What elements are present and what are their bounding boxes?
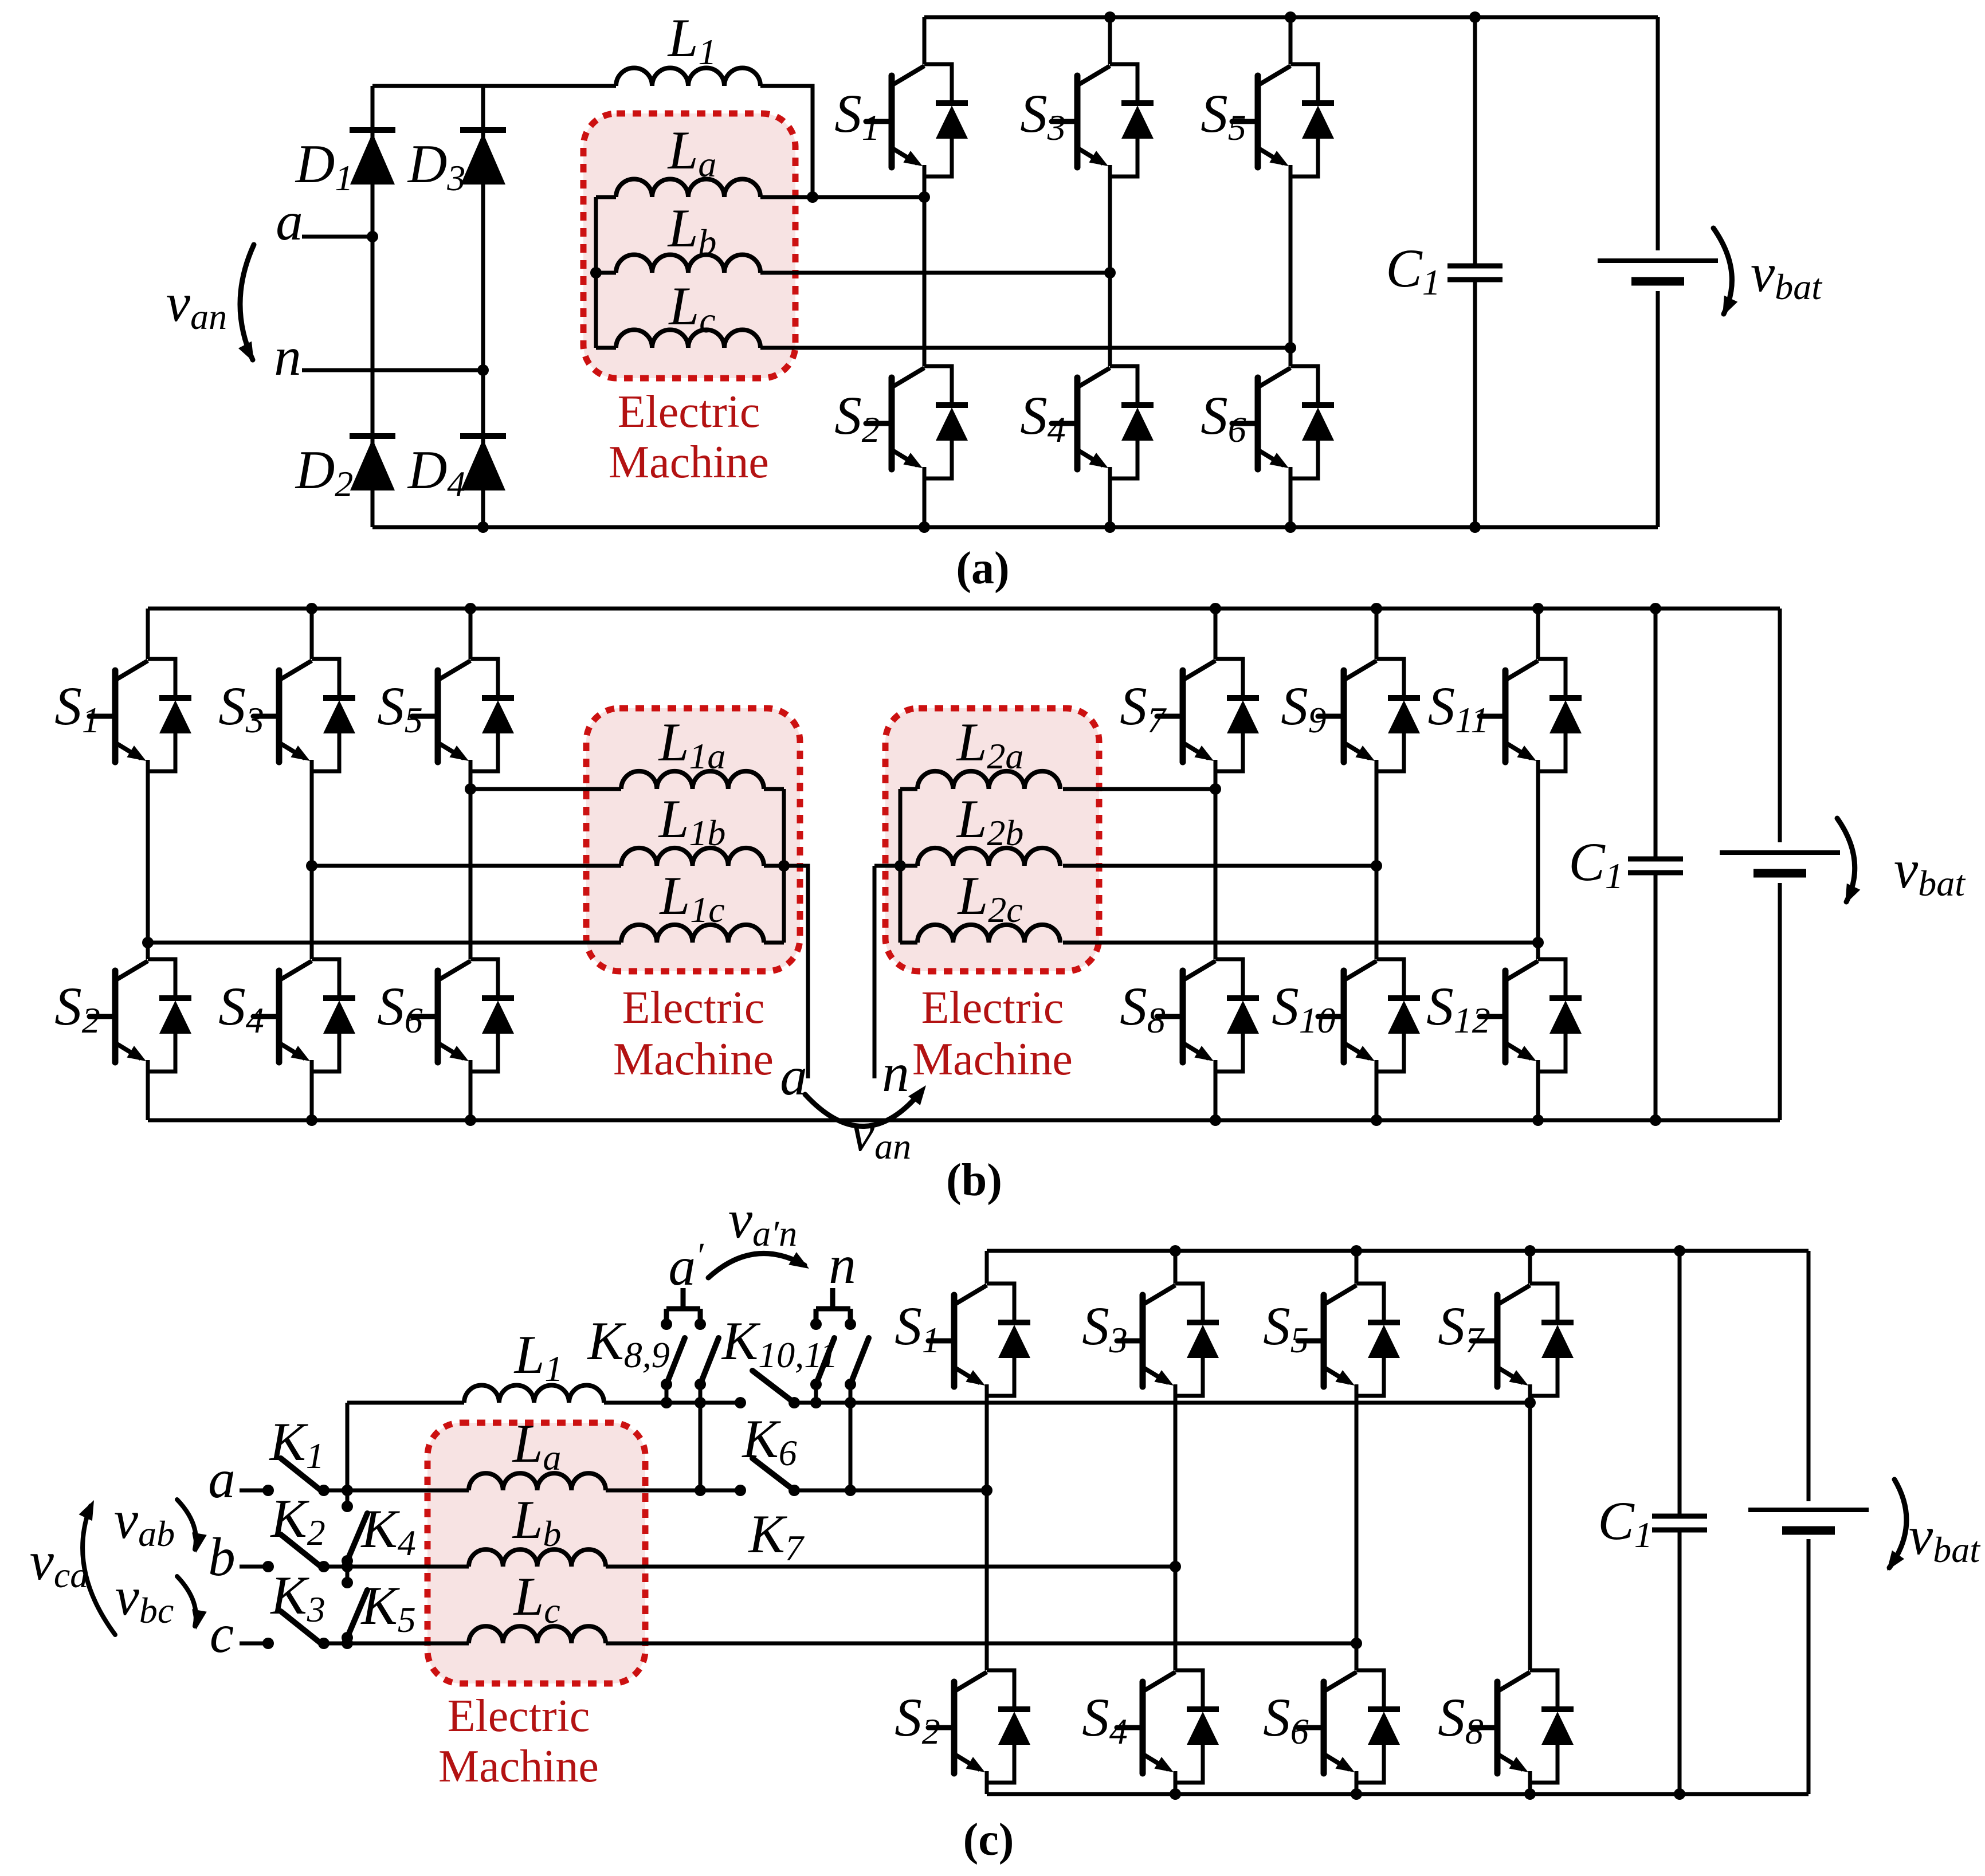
wire coil left stubs (a) xyxy=(596,197,616,348)
inductor Lb (c) xyxy=(469,1549,606,1567)
wire K10 stub to row a-prime xyxy=(814,1384,818,1403)
transistor S4 (b) (IGBT with antiparallel diode) xyxy=(253,959,355,1072)
svg-text:vbat: vbat xyxy=(1909,1505,1981,1570)
node K8-K11 lower contacts xyxy=(661,1379,856,1390)
wire phase a to leg S1/S2 xyxy=(760,195,924,199)
wire battery leads (a) xyxy=(1656,17,1660,527)
wire machine (a) neutral bus xyxy=(594,197,598,348)
transistor S3 (b) (IGBT with antiparallel diode) xyxy=(253,659,355,771)
svg-text:S7: S7 xyxy=(1120,676,1167,740)
wire machine1 star bus (b) xyxy=(782,789,786,943)
node L1 to phase-a junction xyxy=(807,191,818,203)
wire top rail to S11/S12 upper collector (b) xyxy=(1536,609,1540,659)
svg-text:van: van xyxy=(166,272,227,337)
wire S1/S2 mid segment (c) xyxy=(985,1396,989,1670)
svg-text:S4: S4 xyxy=(218,976,264,1041)
wire K9 stub and tie to row a xyxy=(699,1384,703,1490)
inductor La xyxy=(616,179,760,198)
svg-text:D1: D1 xyxy=(295,134,354,198)
inductor L2a xyxy=(917,771,1060,789)
inductor L1c xyxy=(621,925,764,943)
node b input contact (c) xyxy=(262,1561,274,1572)
wire top rail to S3/S4 upper collector (b) xyxy=(310,609,314,659)
wire coil left stubs m2 (b) xyxy=(900,789,917,943)
wire row c into machine xyxy=(347,1642,469,1646)
svg-text:Electric: Electric xyxy=(921,983,1064,1033)
svg-text:S3: S3 xyxy=(218,676,264,740)
svg-text:Machine: Machine xyxy=(912,1034,1073,1085)
electric machine 2 (b) red dashed box xyxy=(885,708,1099,971)
v_an (b) arrow xyxy=(805,1085,926,1127)
diode D3 xyxy=(460,130,506,185)
svg-text:S1: S1 xyxy=(54,676,100,740)
svg-text:K8,9: K8,9 xyxy=(586,1310,669,1375)
wire S5/S6 lower emitter to negative rail xyxy=(1289,478,1293,527)
node bottom rail junctions (c) xyxy=(1170,1788,1685,1800)
diode D2 xyxy=(350,436,395,490)
wire diode bridge left leg (D1/D2) xyxy=(371,86,375,527)
wire S1/S2 to negative rail (c) xyxy=(985,1783,989,1794)
svg-text:Electric: Electric xyxy=(622,983,765,1033)
wire L2a to leg4 (b) xyxy=(1063,787,1215,791)
svg-text:va′n: va′n xyxy=(728,1189,797,1254)
node row b junction cluster xyxy=(342,1555,353,1588)
wire diode bridge right leg (D3/D4) xyxy=(481,86,485,527)
svg-text:S8: S8 xyxy=(1120,976,1166,1041)
transistor S1 (c) (IGBT with antiparallel diode) xyxy=(928,1284,1030,1396)
electric machine 1 (b) red dashed box xyxy=(586,708,800,971)
wire row b Lb out to leg2 xyxy=(606,1565,1175,1569)
node K2 right contact (c) xyxy=(318,1561,329,1572)
wire S5/S6 to negative rail (c) xyxy=(1355,1783,1359,1794)
svg-text:K1: K1 xyxy=(268,1411,324,1476)
wire K4 bottom / row b / K5 top xyxy=(346,1561,350,1583)
wire c input stub (c) xyxy=(240,1642,268,1646)
svg-text:n: n xyxy=(829,1234,856,1295)
svg-text:S10: S10 xyxy=(1272,976,1336,1041)
wire leg3 to L1a (b) xyxy=(470,787,621,791)
node phase junctions (b) xyxy=(142,783,1544,948)
wire C1 leads (b) xyxy=(1654,609,1658,1120)
transistor S5 (c) (IGBT with antiparallel diode) xyxy=(1298,1284,1400,1396)
node top rail junctions (a) xyxy=(1104,11,1481,23)
wire S5/S6 lower emitter to rail (b) xyxy=(469,1072,473,1120)
wire a input stub (c) xyxy=(240,1489,268,1493)
transistor S2 (b) (IGBT with antiparallel diode) xyxy=(89,959,191,1072)
node phase junctions on legs (a) xyxy=(919,191,1296,354)
inductor L1a xyxy=(621,771,764,789)
wire negative DC rail (b) xyxy=(148,1118,1780,1123)
wire S3/S4 phase segment (b) xyxy=(310,771,314,959)
transistor S4 (c) (IGBT with antiparallel diode) xyxy=(1117,1670,1219,1783)
wire coil right stubs m1 (b) xyxy=(764,789,784,943)
node top rail junctions (b) xyxy=(306,603,1661,614)
battery v_bat source (c) xyxy=(1748,1510,1869,1530)
node Lb to neutral bus xyxy=(590,267,602,278)
wire S7/S8 phase segment (b) xyxy=(1214,771,1218,959)
wire S5/S6 phase segment xyxy=(1289,176,1293,366)
wire top rail to S5/S6 upper collector (b) xyxy=(469,609,473,659)
wire top rail to S5/S6 (c) xyxy=(1355,1251,1359,1284)
switch K6 blade xyxy=(752,1371,794,1403)
svg-text:S1: S1 xyxy=(895,1296,940,1360)
diode D4 xyxy=(460,436,506,490)
svg-text:a: a xyxy=(276,191,303,252)
transistor S2 (c) (IGBT with antiparallel diode) xyxy=(928,1670,1030,1783)
wire S1/S2 phase segment (b) xyxy=(146,771,150,959)
transistor S1 (IGBT with antiparallel diode) xyxy=(866,64,968,176)
svg-text:Machine: Machine xyxy=(613,1034,774,1085)
svg-text:vbc: vbc xyxy=(115,1566,174,1631)
wire S11/S12 phase segment (b) xyxy=(1536,771,1540,959)
svg-text:S2: S2 xyxy=(834,385,880,450)
wire row a La out to K7 xyxy=(606,1489,740,1493)
svg-text:Machine: Machine xyxy=(438,1741,599,1792)
svg-text:S1: S1 xyxy=(834,83,880,148)
wire L2c to leg6 (b) xyxy=(1063,941,1538,945)
svg-text:S2: S2 xyxy=(54,976,100,1041)
wire row a-prime from drop to L1 xyxy=(347,1401,464,1405)
capacitor C1 (b) xyxy=(1628,859,1683,873)
node leg phase junctions (c) xyxy=(981,1397,1536,1649)
svg-text:n: n xyxy=(882,1042,909,1103)
transistor S3 (c) (IGBT with antiparallel diode) xyxy=(1117,1284,1219,1396)
wire top rail to S7/S8 upper collector (b) xyxy=(1214,609,1218,659)
wire K2 to row b junction xyxy=(324,1565,347,1569)
svg-text:b: b xyxy=(208,1526,236,1587)
wire positive DC rail (b) xyxy=(148,607,1780,611)
svg-text:S5: S5 xyxy=(1201,83,1246,148)
wire top rail to S7/S8 (c) xyxy=(1528,1251,1532,1284)
wire S9/S10 phase segment (b) xyxy=(1375,771,1379,959)
svg-text:S7: S7 xyxy=(1438,1296,1485,1360)
transistor S2 (IGBT with antiparallel diode) xyxy=(866,366,968,478)
v_bat (c) arrow xyxy=(1887,1479,1906,1571)
svg-text:S3: S3 xyxy=(1082,1296,1128,1360)
switch K1 blade xyxy=(281,1458,324,1493)
wire phase a input stub xyxy=(302,235,372,239)
node n on bridge right leg xyxy=(477,364,489,376)
wire row a K7 to leg1 xyxy=(794,1489,987,1493)
wire top rail to S3/S4 upper collector xyxy=(1108,17,1112,64)
svg-text:S8: S8 xyxy=(1438,1687,1484,1752)
wire phase c to leg S5/S6 xyxy=(760,346,1290,350)
svg-text:K3: K3 xyxy=(269,1565,325,1630)
wire positive DC rail (c) xyxy=(987,1249,1809,1253)
switch K10 blade xyxy=(816,1338,834,1384)
node K4 top contact xyxy=(342,1501,353,1512)
wire negative DC rail (c) xyxy=(987,1792,1809,1796)
capacitor C1 (a) xyxy=(1447,266,1503,280)
svg-text:L1: L1 xyxy=(513,1324,563,1389)
transistor S6 (c) (IGBT with antiparallel diode) xyxy=(1298,1670,1400,1783)
svg-text:S6: S6 xyxy=(1201,385,1246,450)
diode D1 xyxy=(350,130,395,185)
wire top rail to S3/S4 (c) xyxy=(1174,1251,1178,1284)
switch K11 blade xyxy=(850,1338,869,1384)
wire leg1 to L1c (b) xyxy=(148,941,621,945)
wire L1 left drop to row a xyxy=(346,1403,350,1506)
wire L2b to leg5 (b) xyxy=(1063,864,1376,868)
wire neutral n input stub xyxy=(302,368,483,372)
v_bc arrow xyxy=(177,1576,207,1630)
inductor L1b xyxy=(621,848,764,866)
switch K3 blade xyxy=(281,1611,324,1646)
wire row c Lc out to leg3 xyxy=(606,1642,1356,1646)
svg-text:S5: S5 xyxy=(1263,1296,1309,1360)
wire top rail to S1/S2 (c) xyxy=(985,1251,989,1284)
transistor S6 (b) (IGBT with antiparallel diode) xyxy=(412,959,514,1072)
v_bat (b) arrow xyxy=(1837,818,1860,904)
wire S1/S2 lower emitter to rail (b) xyxy=(146,1072,150,1120)
wire K5 bottom to row c xyxy=(346,1638,350,1643)
transistor S11 (b) (IGBT with antiparallel diode) xyxy=(1480,659,1582,771)
wire phase b to leg S3/S4 xyxy=(760,271,1110,275)
wire leg2 to L1b (b) xyxy=(312,864,621,868)
svg-text:S11: S11 xyxy=(1428,676,1489,740)
wire row a-prime K6 to 4th leg xyxy=(794,1401,1530,1405)
node a' upper contacts xyxy=(661,1318,706,1330)
wire K3 to row c junction xyxy=(324,1642,347,1646)
wire S1/S2 lower emitter to negative rail xyxy=(923,478,927,527)
inductor L1 (c) xyxy=(464,1385,604,1403)
v_bat (a) arrow xyxy=(1713,228,1737,316)
wire battery leads (c) xyxy=(1807,1251,1811,1794)
wire S3/S4 phase segment xyxy=(1108,176,1112,366)
wire S7/S8 lower emitter to rail (b) xyxy=(1214,1072,1218,1120)
wire machine1 terminal a (b) xyxy=(784,866,808,1078)
svg-text:D4: D4 xyxy=(407,439,466,504)
wire top rail to S1/S2 upper collector xyxy=(923,17,927,64)
svg-text:K10,11: K10,11 xyxy=(721,1310,838,1375)
inductor Lb xyxy=(616,255,760,273)
electric machine (a) red dashed box xyxy=(583,113,795,378)
terminal a' bracket xyxy=(666,1288,700,1324)
transistor S4 (IGBT with antiparallel diode) xyxy=(1052,366,1154,478)
node n upper contacts xyxy=(810,1318,856,1330)
wire row b into machine xyxy=(347,1565,469,1569)
svg-text:C1: C1 xyxy=(1386,238,1440,303)
transistor S7 (b) (IGBT with antiparallel diode) xyxy=(1157,659,1259,771)
svg-text:S3: S3 xyxy=(1020,83,1066,148)
svg-text:S6: S6 xyxy=(1263,1687,1309,1752)
battery v_bat source (a) xyxy=(1598,261,1718,281)
v_a'n arrow xyxy=(708,1252,809,1278)
transistor S8 (b) (IGBT with antiparallel diode) xyxy=(1157,959,1259,1072)
svg-text:K6: K6 xyxy=(741,1408,797,1473)
wire battery leads (b) xyxy=(1778,609,1782,1120)
transistor S8 (c) (IGBT with antiparallel diode) xyxy=(1472,1670,1574,1783)
svg-text:vab: vab xyxy=(114,1489,175,1554)
node machine1 bus junction xyxy=(778,860,790,872)
wire machine2 terminal n (b) xyxy=(874,866,900,1078)
wire top rail to S5/S6 upper collector xyxy=(1289,17,1293,64)
transistor S3 (IGBT with antiparallel diode) xyxy=(1052,64,1154,176)
switch K4 blade xyxy=(348,1513,367,1558)
switch K9 blade xyxy=(700,1338,719,1384)
terminal n bracket xyxy=(816,1288,850,1324)
switch K8 blade xyxy=(666,1338,685,1384)
node bottom rail junctions (b) xyxy=(306,1114,1661,1126)
svg-text:S2: S2 xyxy=(895,1687,940,1752)
svg-text:a′: a′ xyxy=(668,1236,704,1297)
wire S7/S8 to negative rail (c) xyxy=(1528,1783,1532,1794)
wire S5/S6 mid segment (c) xyxy=(1355,1396,1359,1670)
transistor S9 (b) (IGBT with antiparallel diode) xyxy=(1318,659,1420,771)
svg-text:C1: C1 xyxy=(1568,831,1623,896)
node bottom rail junctions (a) xyxy=(477,521,1481,533)
wire positive DC rail (a) xyxy=(924,15,1658,19)
wire bridge top to L1 xyxy=(372,84,616,88)
svg-text:S5: S5 xyxy=(377,676,423,740)
node row a junction at x606 xyxy=(342,1485,353,1496)
svg-text:S9: S9 xyxy=(1281,676,1327,740)
node row c junction cluster xyxy=(342,1632,353,1649)
node machine2 bus junction xyxy=(895,860,906,872)
wire top rail to S9/S10 upper collector (b) xyxy=(1375,609,1379,659)
wire machine2 star bus (b) xyxy=(899,789,903,943)
svg-text:Electric: Electric xyxy=(448,1691,590,1741)
wire S3/S4 mid segment (c) xyxy=(1174,1396,1178,1670)
svg-text:n: n xyxy=(274,326,301,387)
wire C1 leads (c) xyxy=(1678,1251,1682,1794)
wire top rail to S1/S2 upper collector (b) xyxy=(146,609,150,659)
wire S3/S4 lower emitter to negative rail xyxy=(1108,478,1112,527)
wire S7/S8 mid segment (c) xyxy=(1528,1396,1532,1670)
wire S5/S6 phase segment (b) xyxy=(469,771,473,959)
svg-text:vca: vca xyxy=(30,1530,89,1595)
svg-text:Electric: Electric xyxy=(618,387,760,437)
svg-text:(c): (c) xyxy=(963,1815,1014,1865)
svg-text:(b): (b) xyxy=(946,1155,1002,1206)
svg-text:S12: S12 xyxy=(1426,976,1490,1041)
transistor S6 (IGBT with antiparallel diode) xyxy=(1232,366,1334,478)
wire S1/S2 phase segment xyxy=(923,176,927,366)
wire L1 output down to phase a node xyxy=(760,86,813,197)
inductor L1 (a) xyxy=(616,68,760,86)
node K6 contacts xyxy=(735,1397,800,1408)
node K7 contacts xyxy=(735,1485,800,1496)
transistor S1 (b) (IGBT with antiparallel diode) xyxy=(89,659,191,771)
wire negative DC rail (a) xyxy=(372,525,1658,529)
svg-text:S4: S4 xyxy=(1082,1687,1128,1752)
svg-text:vbat: vbat xyxy=(1751,242,1823,307)
transistor S5 (b) (IGBT with antiparallel diode) xyxy=(412,659,514,771)
inductor L2c xyxy=(917,925,1060,943)
node K1 right contact (c) xyxy=(318,1485,329,1496)
node top rail junctions (c) xyxy=(1170,1245,1685,1257)
wire K11 stub and tie to row a xyxy=(849,1384,853,1490)
battery v_bat source (b) xyxy=(1720,853,1840,873)
svg-text:(a): (a) xyxy=(956,543,1009,594)
wire K1 to row a junction xyxy=(324,1489,347,1493)
v_an (a) arrow xyxy=(238,245,254,362)
v_ab arrow xyxy=(177,1500,207,1553)
svg-text:L1: L1 xyxy=(667,7,717,72)
node a on bridge left leg xyxy=(367,231,378,242)
node c input contact (c) xyxy=(262,1638,274,1649)
switch K2 blade xyxy=(281,1534,324,1569)
svg-text:Machine: Machine xyxy=(609,437,769,488)
svg-text:c: c xyxy=(210,1603,234,1664)
svg-text:La: La xyxy=(512,1413,562,1478)
svg-text:D3: D3 xyxy=(407,134,466,198)
capacitor C1 (c) xyxy=(1652,1516,1707,1530)
inductor L2b xyxy=(917,848,1060,866)
svg-text:a: a xyxy=(208,1449,236,1509)
switch K5 blade xyxy=(348,1590,367,1635)
electric machine (c) red dashed box xyxy=(427,1423,645,1683)
v_ca arrow xyxy=(79,1500,116,1635)
svg-text:S4: S4 xyxy=(1020,385,1066,450)
svg-text:D2: D2 xyxy=(295,439,354,504)
inductor La (c) xyxy=(469,1473,606,1490)
wire b input stub (c) xyxy=(240,1565,268,1569)
wire S11/S12 lower emitter to rail (b) xyxy=(1536,1072,1540,1120)
node K3 right contact (c) xyxy=(318,1638,329,1649)
svg-text:K7: K7 xyxy=(747,1504,805,1568)
wire K8 stub to row a-prime xyxy=(665,1384,669,1403)
svg-text:a: a xyxy=(780,1046,807,1106)
transistor S7 (c) (IGBT with antiparallel diode) xyxy=(1472,1284,1574,1396)
transistor S5 (IGBT with antiparallel diode) xyxy=(1232,64,1334,176)
wire C1 leads (a) xyxy=(1473,17,1477,527)
wire S9/S10 lower emitter to rail (b) xyxy=(1375,1072,1379,1120)
node stub junctions on rows xyxy=(661,1397,856,1496)
svg-text:K5: K5 xyxy=(360,1575,415,1640)
transistor S10 (b) (IGBT with antiparallel diode) xyxy=(1318,959,1420,1072)
svg-text:S6: S6 xyxy=(377,976,423,1041)
wire row a-prime L1 out to K6 xyxy=(604,1401,740,1405)
wire S3/S4 to negative rail (c) xyxy=(1174,1783,1178,1794)
transistor S12 (b) (IGBT with antiparallel diode) xyxy=(1480,959,1582,1072)
svg-text:K4: K4 xyxy=(360,1498,415,1563)
wire S3/S4 lower emitter to rail (b) xyxy=(310,1072,314,1120)
node a input contact (c) xyxy=(262,1485,274,1496)
inductor Lc (c) xyxy=(469,1626,606,1643)
svg-text:K2: K2 xyxy=(269,1488,325,1553)
wire row a into machine xyxy=(347,1489,469,1493)
svg-text:C1: C1 xyxy=(1598,1490,1652,1555)
switch K7 blade xyxy=(752,1458,794,1490)
inductor Lc xyxy=(616,330,760,348)
svg-text:vbat: vbat xyxy=(1894,839,1966,904)
